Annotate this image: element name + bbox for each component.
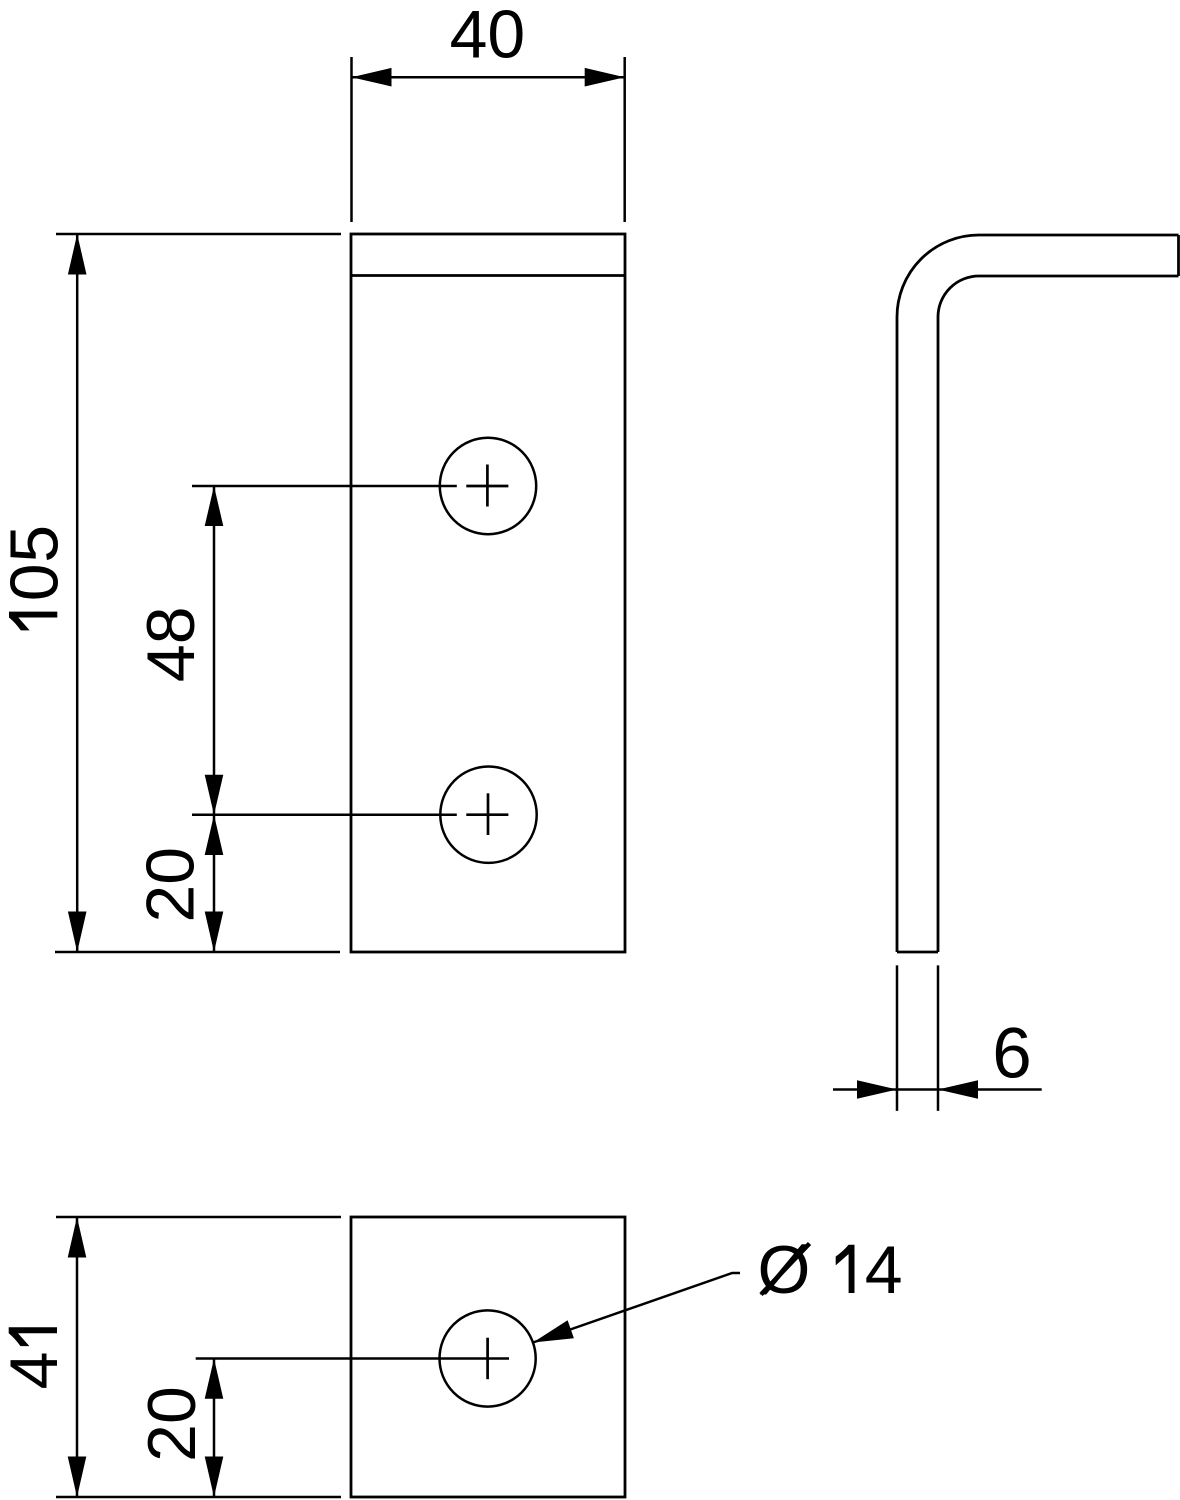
- svg-text:20: 20: [133, 847, 209, 923]
- svg-text:0: 0: [0, 563, 72, 601]
- svg-text:5: 5: [0, 525, 72, 563]
- svg-text:48: 48: [133, 606, 209, 682]
- svg-text:4: 4: [0, 1352, 72, 1390]
- svg-text:6: 6: [992, 1015, 1032, 1094]
- svg-text:20: 20: [134, 1386, 210, 1462]
- svg-text:40: 40: [450, 0, 526, 73]
- svg-text:4: 4: [865, 1232, 903, 1308]
